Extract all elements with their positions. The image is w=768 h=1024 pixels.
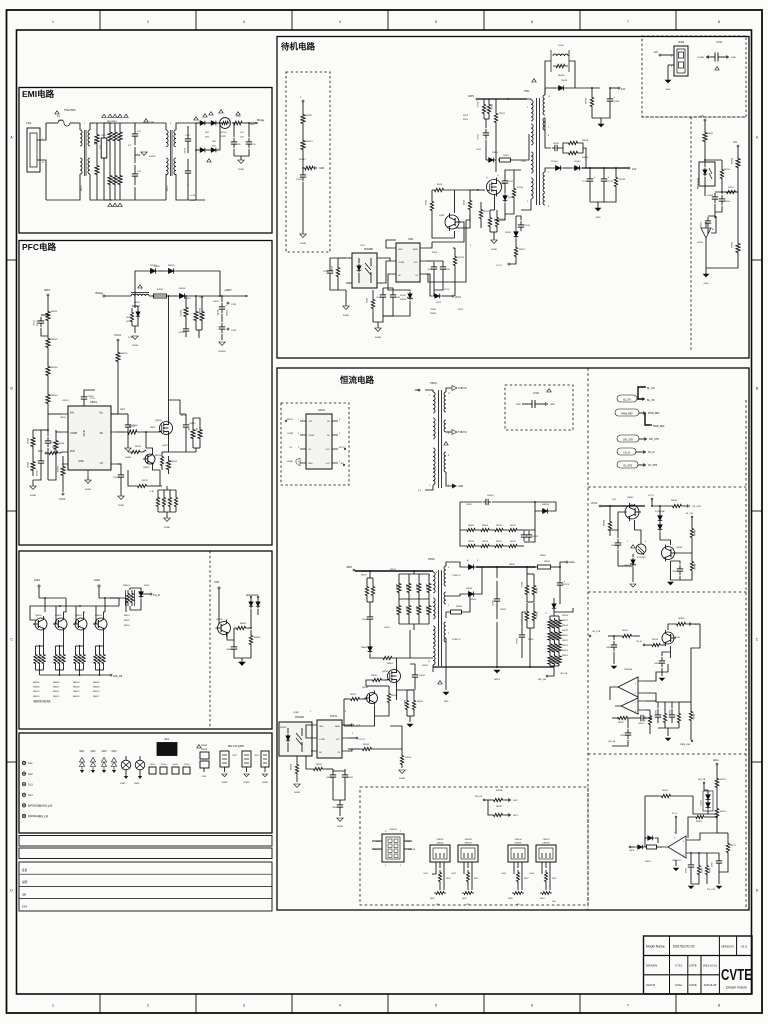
mosfet Q8001 main	[382, 658, 433, 700]
sense resistor R521	[488, 210, 494, 232]
net OCP pin	[214, 581, 220, 612]
LED balance section box	[19, 551, 272, 729]
left compensation C8122	[33, 430, 44, 480]
capacitor C8066	[226, 640, 251, 658]
cl3 below caps	[673, 836, 678, 871]
svg-text:8: 8	[718, 20, 720, 24]
svg-text:C80X1: C80X1	[487, 495, 494, 497]
svg-text:SGND: SGND	[262, 782, 269, 784]
svg-text:GND: GND	[398, 249, 403, 251]
svg-text:R8X77: R8X77	[730, 845, 736, 847]
svg-text:ZDB16: ZDB16	[430, 313, 437, 315]
opamp U8X50B	[615, 698, 646, 714]
capacitor C8104	[81, 390, 95, 404]
ground opto SGND	[343, 290, 350, 317]
svg-text:C8X76: C8X76	[563, 584, 570, 586]
svg-text:R8X04: R8X04	[456, 606, 463, 608]
svg-text:R8110: R8110	[724, 169, 731, 171]
ground cl1 b	[668, 561, 674, 585]
svg-text:R5XX7: R5XX7	[499, 113, 505, 115]
svg-text:OCP: OCP	[214, 581, 220, 584]
svg-text:U501: U501	[408, 239, 414, 241]
net CN_M out	[141, 593, 160, 597]
svg-text:4: 4	[339, 1004, 341, 1008]
svg-text:PGND: PGND	[491, 249, 498, 251]
cl2 resistor R8X58	[643, 710, 652, 734]
svg-text:Q8X45: Q8X45	[676, 547, 683, 549]
svg-text:6: 6	[531, 1004, 533, 1008]
svg-text:LED1: LED1	[513, 815, 518, 817]
divider net 380V	[44, 288, 50, 305]
net BL_ON cl1	[686, 513, 693, 522]
svg-text:CN8X02: CN8X02	[436, 843, 443, 845]
svg-text:R8X46: R8X46	[417, 701, 423, 703]
cl2 RC bank	[654, 702, 681, 734]
svg-text:R8121: R8121	[26, 438, 28, 445]
svg-text:R8065: R8065	[254, 637, 261, 639]
svg-text:C5X10: C5X10	[524, 225, 530, 227]
svg-text:R8X45: R8X45	[403, 700, 405, 706]
svg-text:GD3: GD3	[102, 750, 108, 753]
svg-text:R8109: R8109	[52, 447, 59, 449]
wire base net Q502	[432, 222, 464, 242]
ground JP1	[221, 774, 228, 784]
svg-text:PCB18B: PCB18B	[364, 249, 373, 251]
svg-text:D5102: D5102	[551, 161, 558, 163]
svg-text:C8X54: C8X54	[638, 723, 644, 725]
T8001 tap TX807-6 mid	[446, 430, 468, 435]
transistor Q8001	[33, 615, 47, 645]
svg-text:R8107: R8107	[26, 462, 28, 469]
resistor RV3	[118, 125, 122, 148]
ground sec	[595, 202, 601, 219]
svg-text:2: 2	[147, 20, 149, 24]
svg-text:SGND: SGND	[343, 315, 350, 317]
svg-text:LED-: LED-	[466, 904, 470, 906]
CS resistor R8X45	[348, 726, 402, 751]
drain cap C8123	[183, 414, 196, 452]
svg-text:7: 7	[339, 433, 340, 435]
ground SGND mid	[135, 147, 156, 163]
wire CS net	[117, 414, 160, 486]
svg-text:C515: C515	[395, 297, 401, 299]
svg-text:1: 1	[141, 289, 142, 291]
svg-text:R8106: R8106	[58, 443, 65, 445]
diode D8006	[361, 638, 380, 658]
svg-text:C8X62: C8X62	[684, 868, 686, 873]
source resistor R8214	[155, 452, 169, 470]
svg-text:R8X17: R8X17	[562, 620, 568, 622]
svg-text:7: 7	[627, 20, 629, 24]
svg-text:D512: D512	[436, 302, 442, 304]
svg-text:BL_ON: BL_ON	[647, 400, 655, 402]
mid caps C8XX9	[515, 612, 534, 658]
svg-text:C8209: C8209	[178, 332, 185, 334]
svg-text:R8X45: R8X45	[363, 744, 370, 746]
svg-text:VCC: VCC	[414, 262, 419, 264]
wire cl1 base	[618, 512, 627, 530]
bullet list GL	[22, 761, 52, 818]
svg-text:LED_FB: LED_FB	[538, 679, 547, 681]
cl2 resistor R8X57	[612, 716, 638, 724]
PFC mosfet Q8201	[155, 295, 173, 452]
dashed box CY82	[505, 385, 573, 430]
svg-text:R8002: R8002	[387, 663, 394, 665]
net stadium DID_STB	[617, 435, 659, 442]
svg-text:R8102: R8102	[51, 339, 58, 341]
svg-text:12V: 12V	[700, 115, 705, 118]
svg-text:@R600间隔ẞ外汁之间: @R600间隔ẞ外汁之间	[28, 804, 53, 808]
transistor Q8X41	[625, 497, 645, 521]
opto cap C531	[323, 258, 338, 290]
resistor R8X51	[589, 630, 640, 638]
svg-text:GATE: GATE	[412, 248, 418, 251]
svg-text:2: 2	[178, 123, 179, 125]
svg-text:8: 8	[339, 419, 340, 421]
connector module CN8007	[424, 839, 451, 906]
cl2 resistor R8X59	[679, 702, 694, 738]
vcc diode D512	[426, 274, 452, 304]
svg-text:R8X05: R8X05	[540, 555, 546, 557]
connector CN1	[26, 121, 46, 200]
wire opto to comp	[383, 258, 390, 283]
svg-text:COMP: COMP	[398, 262, 405, 264]
fuse F1	[55, 109, 78, 126]
ground PGND bulk	[218, 342, 226, 353]
inrush NTC RT1	[220, 118, 231, 138]
svg-text:R5X91: R5X91	[503, 155, 509, 157]
svg-text:R8X67: R8X67	[496, 806, 503, 808]
svg-text:@R600间隔汁之间: @R600间隔汁之间	[28, 814, 49, 818]
capacitor C8212	[219, 323, 225, 340]
svg-text:4: 4	[339, 20, 341, 24]
U8101 pin stubs	[62, 414, 117, 476]
svg-text:R8X11: R8X11	[496, 541, 502, 543]
transformer T8002	[428, 559, 461, 672]
svg-text:GL3: GL3	[28, 783, 33, 786]
svg-text:T5AL250V: T5AL250V	[64, 109, 76, 112]
sense resistor R8217c	[128, 470, 162, 488]
svg-text:R8016: R8016	[73, 696, 80, 698]
svg-text:PGND2: PGND2	[218, 351, 226, 353]
svg-text:OUT: OUT	[356, 725, 361, 727]
svg-text:PCB14B: PCB14B	[295, 717, 304, 719]
resistor R5101	[301, 108, 313, 130]
common mode choke LCM1	[78, 123, 112, 200]
svg-text:R8X14: R8X14	[535, 588, 537, 594]
svg-text:C5X16: C5X16	[476, 134, 478, 140]
net 180V	[468, 94, 527, 100]
gate resistor R520	[455, 190, 485, 228]
svg-text:D5X2: D5X2	[458, 309, 464, 311]
snubber R8004	[446, 594, 470, 618]
svg-text:8: 8	[436, 572, 437, 574]
wire drain net	[169, 400, 197, 452]
svg-text:DID_STB: DID_STB	[649, 439, 659, 441]
svg-text:LED_FB: LED_FB	[475, 796, 483, 798]
svg-text:R5X18: R5X18	[490, 104, 492, 110]
svg-text:3: 3	[683, 841, 684, 843]
notes table	[19, 862, 272, 911]
svg-text:D5101: D5101	[561, 80, 568, 82]
svg-text:R8012: R8012	[73, 691, 80, 693]
svg-text:ZCD: ZCD	[38, 451, 43, 453]
svg-text:BL_ON: BL_ON	[647, 388, 655, 390]
resistor R870	[703, 126, 714, 160]
capacitor CY4	[185, 126, 196, 202]
capacitor C8101	[32, 314, 49, 336]
svg-text:PGND: PGND	[118, 505, 125, 507]
svg-text:R8X73: R8X73	[720, 779, 726, 781]
svg-text:C8105: C8105	[113, 477, 120, 479]
svg-text:C8066: C8066	[226, 649, 233, 651]
svg-text:R8X2B: R8X2B	[582, 157, 589, 159]
svg-text:R8X18: R8X18	[468, 541, 474, 543]
wire CS sense net	[344, 716, 375, 726]
diode D2	[207, 121, 222, 126]
svg-text:R8X09: R8X09	[482, 525, 488, 527]
net 5V_P cl3	[672, 813, 678, 834]
svg-text:LED_FB: LED_FB	[698, 779, 706, 781]
svg-text:R5X8: R5X8	[432, 252, 438, 254]
svg-text:180V: 180V	[516, 404, 522, 406]
svg-text:GND: GND	[731, 57, 736, 59]
wire cc drive nets	[306, 699, 352, 751]
net 12V CN82	[654, 51, 668, 56]
net stadium PWM_REF	[615, 409, 665, 428]
svg-text:LCM2: LCM2	[165, 185, 168, 192]
varistor VZ2	[134, 756, 145, 785]
net 12V fb	[700, 115, 706, 126]
svg-text:VR81: VR81	[120, 783, 126, 785]
startup caps C511	[502, 170, 521, 188]
svg-text:R8X56: R8X56	[678, 618, 685, 620]
labels R8C	[124, 615, 130, 627]
resistor R8057	[227, 623, 252, 640]
filter cap C5111	[582, 167, 596, 202]
svg-text:PWM_REF: PWM_REF	[680, 744, 691, 746]
net flags cluster2	[108, 203, 122, 206]
svg-text:CN_M: CN_M	[153, 594, 160, 597]
svg-text:C5X1: C5X1	[360, 245, 366, 247]
wire AC bottom rail	[46, 199, 78, 201]
resistor R8X10 to gnd	[400, 749, 412, 768]
comp cap C8X44	[289, 756, 299, 782]
resistor RV1	[108, 125, 112, 148]
title block grid	[644, 936, 753, 994]
svg-text:SGND: SGND	[221, 782, 228, 784]
svg-text:R523: R523	[424, 200, 426, 206]
svg-text:R8204: R8204	[185, 298, 191, 300]
svg-text:C8XX2: C8XX2	[500, 609, 506, 611]
svg-text:BL_ON: BL_ON	[623, 400, 631, 402]
svg-text:R8X46: R8X46	[671, 500, 678, 502]
svg-text:C8X61: C8X61	[318, 410, 326, 412]
resistor R8016	[361, 570, 373, 602]
svg-text:Q8005: Q8005	[216, 619, 223, 621]
svg-text:R8X35: R8X35	[509, 564, 515, 566]
ground box3	[239, 658, 245, 665]
svg-text:6: 6	[635, 711, 636, 713]
svg-text:R8129: R8129	[56, 466, 58, 473]
emitter resistor bank 2	[54, 645, 65, 675]
net VCC2 stub	[114, 333, 121, 346]
snubber R517	[476, 99, 486, 119]
svg-text:IXD_STB: IXD_STB	[707, 889, 716, 891]
net LED+ cl3	[713, 760, 719, 772]
svg-text:C8XX9: C8XX9	[515, 638, 517, 644]
svg-text:C5X7: C5X7	[521, 161, 527, 163]
svg-text:BL_ON: BL_ON	[686, 513, 693, 515]
svg-text:SGND: SGND	[399, 778, 406, 780]
svg-text:C8015: C8015	[362, 619, 369, 621]
svg-text:CN82: CN82	[678, 41, 685, 44]
svg-text:C8016: C8016	[419, 675, 426, 677]
svg-text:C8X47: C8X47	[672, 571, 678, 573]
resistor R8101	[46, 305, 58, 327]
svg-text:R8214: R8214	[155, 455, 162, 457]
T8002 net flag	[438, 681, 442, 684]
sense stack labels	[562, 620, 568, 657]
svg-text:R8X4P: R8X4P	[391, 695, 398, 697]
svg-text:PGND: PGND	[238, 169, 245, 171]
svg-text:R520: R520	[462, 200, 464, 206]
frame column ticks bottom	[52, 994, 720, 1013]
connector JP1	[220, 746, 245, 772]
aux resistor R5X52	[510, 244, 525, 264]
svg-text:CY82: CY82	[185, 135, 190, 137]
rect diode D8003	[446, 567, 482, 597]
cap C8016	[410, 664, 426, 690]
resistor R8X69	[688, 815, 718, 838]
net flag CY	[144, 119, 148, 122]
svg-text:GND: GND	[666, 89, 671, 91]
svg-text:R870: R870	[708, 133, 714, 135]
mylar ML1	[157, 738, 177, 756]
svg-text:472: 472	[128, 145, 131, 147]
svg-text:R8217: R8217	[142, 480, 149, 482]
capacitor CY6	[231, 122, 242, 156]
svg-text:CN_STB: CN_STB	[592, 631, 601, 633]
capacitor CY2	[132, 165, 142, 200]
svg-text:1: 1	[310, 711, 311, 713]
ground SGND c8106	[125, 448, 132, 459]
LED pair D8X12	[698, 779, 717, 814]
svg-text:CN1: CN1	[26, 121, 32, 125]
feedback resistor R8X67	[645, 790, 708, 840]
svg-text:D8204: D8204	[179, 288, 186, 290]
svg-text:D5103: D5103	[574, 161, 581, 163]
svg-text:INV: INV	[70, 412, 74, 415]
svg-text:R5141: R5141	[584, 98, 586, 105]
snubber R5XX7	[494, 99, 505, 136]
svg-text:R8002: R8002	[33, 682, 40, 684]
transistor Q8004	[93, 606, 107, 645]
svg-text:9.713: 9.713	[675, 964, 682, 968]
svg-text:R8X13: R8X13	[520, 582, 522, 588]
capacitor C5140	[592, 87, 620, 118]
ground cl3 a	[688, 886, 693, 889]
svg-text:SND: SND	[444, 701, 449, 703]
svg-text:C5112: C5112	[607, 181, 614, 183]
net flags bridge top	[209, 110, 223, 115]
cl3 cap C8X62	[684, 852, 694, 884]
svg-text:NT811: NT811	[220, 136, 227, 138]
capacitor CY81	[698, 41, 737, 62]
wire snubber to drain	[495, 136, 497, 160]
svg-text:F8101: F8101	[58, 120, 63, 122]
diode D1	[196, 121, 207, 126]
svg-text:U8X50C2+: U8X50C2+	[672, 860, 682, 862]
connector CN82	[668, 41, 688, 76]
svg-text:7: 7	[400, 831, 401, 833]
svg-text:VCC2: VCC2	[90, 398, 95, 400]
svg-text:Z5B16: Z5B16	[400, 299, 407, 301]
capacitor C8X53	[654, 652, 671, 676]
PFC mos snubber Z1	[126, 296, 140, 339]
svg-text:DS07S/CXCX2: DS07S/CXCX2	[673, 945, 695, 949]
aux winding VCC1 chain cap	[516, 216, 530, 231]
svg-text:R8114: R8114	[135, 446, 142, 448]
svg-text:GD2: GD2	[91, 750, 97, 753]
capacitor CX1	[98, 123, 107, 200]
snubber resistor grid	[460, 502, 524, 548]
svg-text:D8X18: D8X18	[562, 615, 568, 617]
svg-text:5: 5	[352, 733, 353, 735]
svg-text:R8103: R8103	[51, 367, 58, 369]
svg-text:2: 2	[635, 693, 636, 695]
svg-text:VCC3: VCC3	[648, 495, 654, 497]
diode D3	[196, 123, 207, 152]
svg-text:PC8X8(1A): PC8X8(1A)	[696, 178, 699, 189]
transistor Q8005	[216, 612, 231, 637]
svg-text:1/2W: 1/2W	[199, 297, 204, 299]
svg-text:U8X50A: U8X50A	[624, 668, 632, 671]
svg-text:CS: CS	[100, 462, 104, 465]
svg-text:R8X58: R8X58	[643, 716, 645, 722]
emitter resistor bank 4	[94, 645, 105, 675]
svg-text:SGND: SGND	[125, 457, 132, 459]
svg-text:BD1 P10 QR50: BD1 P10 QR50	[228, 746, 245, 748]
boost inductor L201	[131, 293, 166, 308]
svg-text:C8143: C8143	[36, 320, 38, 327]
ground SGND comp	[30, 480, 37, 497]
svg-text:3: 3	[170, 123, 171, 125]
svg-text:12V: 12V	[621, 88, 626, 91]
svg-text:EC81: EC81	[216, 310, 218, 316]
svg-text:R8203: R8203	[179, 310, 181, 317]
svg-text:LED3: LED3	[502, 873, 507, 875]
svg-text:R8X64: R8X64	[708, 868, 710, 873]
diode D8018	[552, 598, 573, 617]
resistor R8104	[46, 382, 58, 430]
snubber diode D8XX5	[534, 501, 556, 513]
svg-text:R8X23: R8X23	[562, 650, 568, 652]
net 12V sec	[628, 167, 637, 171]
svg-text:C8X47: C8X47	[430, 309, 437, 311]
resistor R8115	[730, 152, 740, 192]
svg-text:VCC: VCC	[326, 449, 331, 451]
snubber cap C80X1	[460, 495, 556, 505]
svg-text:NC: NC	[327, 435, 331, 437]
U8002 vcc net	[348, 737, 366, 741]
svg-text:R8X7: R8X7	[524, 878, 529, 880]
svg-text:R8008: R8008	[73, 687, 80, 689]
capacitor C8112	[699, 212, 715, 234]
svg-text:R8X9: R8X9	[430, 898, 435, 900]
svg-text:GL1: GL1	[28, 762, 33, 765]
connector module CN8010	[502, 839, 529, 906]
